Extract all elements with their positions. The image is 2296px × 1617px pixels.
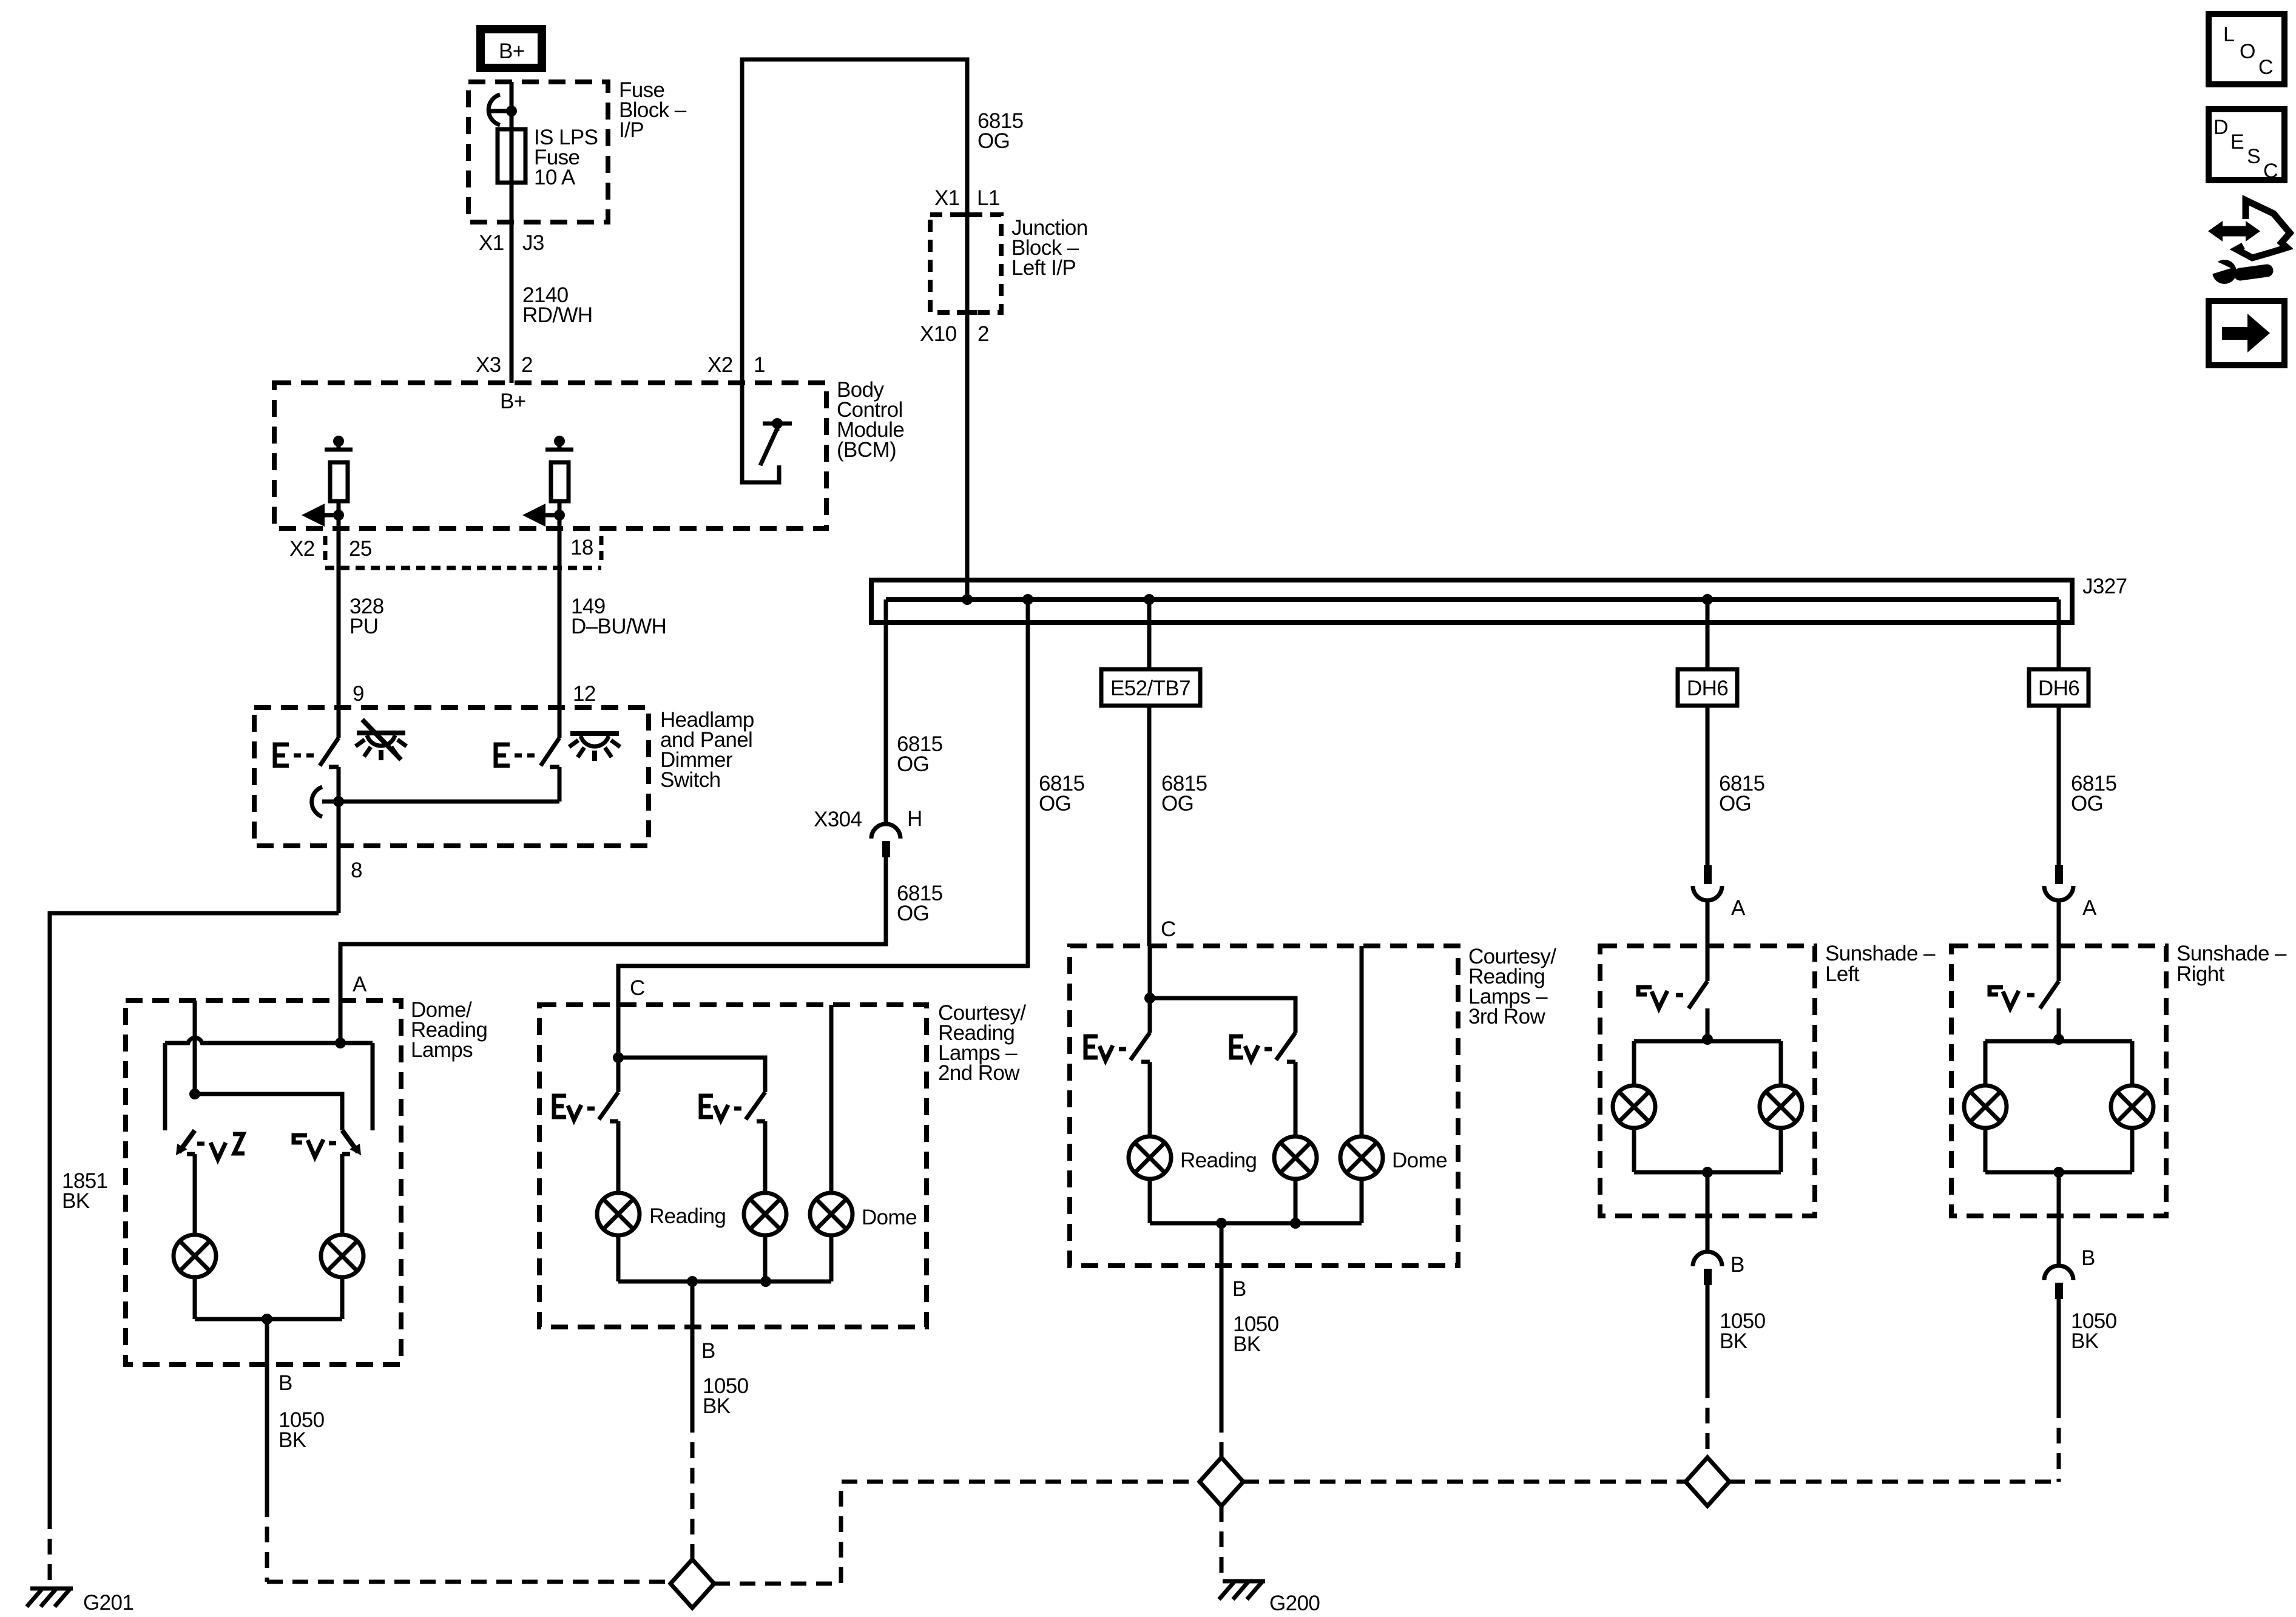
node fuse block tap junction (488, 95, 517, 125)
svg-text:DH6: DH6 (2038, 677, 2079, 700)
svg-text:BK: BK (62, 1189, 90, 1213)
wire A into lamp assembly (339, 1001, 343, 1043)
node B+ (battery feed box) (481, 29, 542, 68)
node splice S304 on bus (1702, 594, 1713, 605)
switch BCM internal driver (right side) (742, 383, 792, 482)
lamp reading left (3rd row) (1129, 1136, 1257, 1179)
svg-text:D–BU/WH: D–BU/WH (571, 615, 666, 638)
wire feed rail with hop (165, 1038, 373, 1043)
connector inline pin A (right sunshade) (2044, 865, 2097, 920)
svg-text:B: B (701, 1339, 715, 1363)
svg-text:1: 1 (754, 353, 765, 377)
lamp sunshade right A (1964, 1085, 2007, 1128)
legend button DESC (2209, 109, 2284, 183)
switch 2nd row right (746, 1092, 765, 1193)
svg-text:OG: OG (1719, 792, 1751, 815)
component box Headlamp and Panel Dimmer Switch (254, 707, 649, 846)
svg-text:B+: B+ (500, 390, 526, 413)
wire dome branch (829, 1005, 834, 1193)
svg-text:BK: BK (1233, 1332, 1261, 1356)
wire collector rail (193, 1277, 197, 1319)
wire pin 8 output (337, 802, 341, 913)
node splice S302 on bus (1022, 594, 1033, 605)
switch SW2 (panel lamp contact) (541, 707, 559, 802)
wire G200 drop (1220, 1506, 1224, 1578)
lamp reading right (3rd row) (1274, 1136, 1317, 1179)
splice S1 (diamond) (670, 1559, 714, 1608)
svg-text:Switch: Switch (660, 768, 721, 792)
svg-text:X1: X1 (934, 186, 960, 210)
switch dome left (reading) (176, 1130, 195, 1235)
wire dimmer output rail (322, 800, 559, 804)
splice S2 (diamond) (1200, 1457, 1243, 1506)
component box Junction Block - Left I/P (930, 215, 1001, 312)
svg-text:BK: BK (1720, 1329, 1747, 1353)
connector inline pin B (sunshade right) (2044, 1266, 2073, 1299)
wire pin B (sunshade left) (1706, 1172, 1710, 1252)
svg-text:B: B (1730, 1253, 1744, 1277)
svg-text:X1: X1 (479, 231, 504, 255)
svg-text:BK: BK (2071, 1329, 2099, 1353)
svg-text:BK: BK (279, 1428, 306, 1452)
wire collector (sunshade left) (1632, 1128, 1636, 1172)
wire pin B 1050 BK (2nd row) (690, 1281, 695, 1417)
wire pin B 1050 BK (265, 1319, 269, 1501)
wire 6815 OG from bus to X304 (884, 599, 888, 824)
svg-text:G200: G200 (1269, 1592, 1320, 1615)
connector X304 pin H (814, 807, 922, 857)
connector inline pin A (left sunshade) (1693, 865, 1746, 920)
fuse F1 IS LPS 10A (498, 129, 525, 183)
svg-text:X304: X304 (814, 808, 862, 831)
svg-text:BK: BK (703, 1394, 731, 1418)
ground G200 (1219, 1581, 1320, 1615)
wire BCM X2-1 up and over to junction block (742, 59, 967, 599)
svg-text:B: B (2081, 1246, 2095, 1270)
wire collector rail (3rd row) (1148, 1179, 1152, 1223)
icon Fv- (sunshade right) (1990, 987, 2034, 1008)
connector DH6 (right) (2029, 669, 2088, 706)
icon Ev- right (3rd row) (1231, 1036, 1272, 1061)
svg-text:Left: Left (1825, 962, 1860, 986)
svg-text:Left I/P: Left I/P (1011, 256, 1076, 280)
icon -vZ (door symbol) (197, 1134, 245, 1160)
svg-text:8: 8 (351, 859, 362, 882)
svg-text:X3: X3 (476, 353, 501, 377)
legend icon hand with wrench (2207, 200, 2290, 284)
wire 6815 OG from bus to 2nd row lamps (618, 599, 1028, 1005)
svg-text:J327: J327 (2082, 575, 2127, 598)
splice S3 (diamond) (1686, 1457, 1729, 1506)
node splice S303 on bus (1144, 594, 1155, 605)
svg-text:2: 2 (977, 322, 989, 346)
resistor R1 (BCM interior lamps driver left) (325, 436, 353, 501)
svg-text:A: A (2082, 896, 2097, 920)
svg-text:G201: G201 (83, 1591, 133, 1615)
svg-text:E: E (2230, 130, 2244, 154)
switch sunshade right (2040, 946, 2059, 1039)
node dimmer output tap hook (312, 787, 344, 817)
lamp sunshade left A (1613, 1085, 1655, 1128)
svg-text:DH6: DH6 (1687, 677, 1728, 700)
svg-text:Right: Right (2176, 962, 2225, 986)
component box Courtesy/Reading Lamps - 2nd Row (539, 1005, 927, 1327)
wire collector rail (2nd row) (616, 1235, 621, 1281)
lamp sunshade left B (1760, 1085, 1802, 1128)
wire 1851 BK run to G201 (50, 913, 339, 1513)
wire pin B (sunshade right) (2057, 1172, 2061, 1266)
legend button LOC (2209, 14, 2284, 84)
icon Ev- left (3rd row) (1086, 1036, 1126, 1061)
wire lamp rails (sunshade left) (1702, 1034, 1713, 1045)
lamp dome (2nd row) (810, 1193, 917, 1235)
wire ground run dome to splice (267, 1580, 670, 1584)
wire ground run sunshade right (1729, 1480, 2059, 1484)
switch 2nd row left (599, 1092, 618, 1193)
wire 1050 BK (sunshade left) (1706, 1285, 1710, 1382)
wire from R2 to pin 18 (558, 501, 562, 707)
svg-text:H: H (907, 807, 922, 831)
wire 6815 OG from bus through E52/TB7 to 3rd row lamps (1147, 599, 1152, 946)
wire 6815 OG from bus to sunshade left (1706, 599, 1710, 865)
lamp reading right (2nd row) (744, 1193, 786, 1235)
svg-text:OG: OG (2071, 792, 2103, 815)
svg-text:C: C (2263, 160, 2278, 183)
component box Sunshade - Left (1600, 946, 1815, 1216)
lamp dome left (174, 1235, 216, 1277)
component box Sunshade - Right (1951, 946, 2166, 1216)
wire from R1 to pin 25 (337, 501, 341, 707)
icon Ev- right (701, 1096, 741, 1120)
svg-text:A: A (1731, 896, 1746, 920)
svg-text:X2: X2 (707, 353, 733, 377)
wire B+ feed through fuse block down to BCM (510, 82, 514, 383)
actuator icon E right (496, 744, 535, 766)
wire lamp rails (sunshade right) (2053, 1034, 2064, 1045)
wire 1050 BK (sunshade right) (2057, 1299, 2061, 1402)
svg-text:E52/TB7: E52/TB7 (1110, 677, 1190, 700)
svg-text:10 A: 10 A (534, 166, 576, 189)
svg-text:Dome: Dome (1392, 1149, 1447, 1172)
lamp reading left (2nd row) (597, 1193, 726, 1235)
component box Courtesy/Reading Lamps - 3rd Row (1070, 946, 1458, 1266)
svg-text:C: C (630, 976, 645, 1000)
component box Fuse Block - I/P (468, 82, 608, 222)
svg-text:3rd Row: 3rd Row (1468, 1005, 1545, 1028)
svg-text:9: 9 (353, 682, 364, 706)
svg-text:Reading: Reading (1180, 1149, 1257, 1172)
component box Dome/Reading Lamps (126, 1001, 401, 1365)
lamp sunshade right B (2111, 1085, 2153, 1128)
wire C feed (3rd row) (1148, 946, 1152, 1033)
node BCM output arrow left (302, 504, 344, 527)
bus bar internal (886, 597, 2059, 602)
connector inline pin B (sunshade left) (1693, 1252, 1722, 1285)
wire 6815 OG from bus to sunshade right (2057, 599, 2061, 865)
switch sunshade left (1689, 946, 1707, 1039)
connector DH6 (left) (1678, 669, 1737, 706)
lamp dome (3rd row) (1340, 1136, 1447, 1179)
wire ground run to 2nd splice (714, 1482, 1200, 1584)
node splice S301 on bus (962, 594, 973, 605)
svg-text:X2: X2 (289, 537, 315, 561)
icon Ev- left (554, 1096, 595, 1120)
connector E52/TB7 (1101, 669, 1200, 706)
actuator icon E left (275, 744, 314, 766)
svg-text:Reading: Reading (649, 1204, 726, 1228)
svg-text:J3: J3 (522, 231, 544, 255)
wire pin B 1050 BK (3rd row) (1220, 1223, 1224, 1417)
svg-text:O: O (2240, 40, 2255, 63)
svg-text:OG: OG (1039, 792, 1071, 815)
connector X2 bracket (325, 536, 601, 568)
svg-text:B: B (279, 1371, 292, 1395)
switch dome right (door) (342, 1130, 361, 1235)
svg-text:25: 25 (349, 537, 372, 561)
svg-text:C: C (1161, 917, 1176, 941)
svg-text:18: 18 (570, 536, 593, 559)
wire branches (163, 1043, 167, 1130)
svg-text:I/P: I/P (619, 118, 644, 142)
wire ground run to 3rd splice (1243, 1480, 1686, 1484)
icon panel lamp (sun) (569, 734, 620, 761)
svg-text:C: C (2258, 56, 2274, 79)
svg-text:2nd Row: 2nd Row (938, 1061, 1020, 1085)
svg-text:OG: OG (1161, 792, 1194, 815)
svg-text:12: 12 (573, 682, 596, 706)
component box Body Control Module (BCM) (274, 383, 826, 528)
svg-text:(BCM): (BCM) (837, 438, 896, 462)
svg-text:PU: PU (349, 615, 378, 638)
svg-text:A: A (353, 973, 367, 996)
svg-text:OG: OG (977, 129, 1010, 153)
wire 6815 OG from X304 to dome lamps (340, 857, 886, 1001)
svg-text:RD/WH: RD/WH (522, 303, 593, 327)
icon Fv- (sunshade left) (1638, 987, 1683, 1008)
svg-text:X10: X10 (920, 322, 957, 346)
switch SW1 (panel dim contact) (320, 707, 339, 802)
wire center tap from housing (193, 1001, 197, 1094)
splice pack J327 outer frame (871, 580, 2072, 623)
svg-text:S: S (2247, 145, 2261, 168)
wire dome branch (3rd row) (1360, 946, 1364, 1136)
switch 3rd row left (1130, 1033, 1150, 1136)
icon Fv- (override symbol) (294, 1135, 336, 1157)
svg-text:D: D (2213, 116, 2229, 139)
svg-text:OG: OG (897, 902, 929, 925)
legend button arrow (2209, 301, 2284, 365)
svg-text:B+: B+ (499, 39, 525, 63)
icon panel dim (sun with strike) (356, 720, 407, 760)
switch 3rd row right (1276, 1033, 1295, 1136)
svg-text:Lamps: Lamps (411, 1038, 473, 1062)
node BCM output arrow right (522, 504, 565, 527)
svg-text:Dome: Dome (862, 1206, 917, 1229)
wire collector (sunshade right) (1984, 1128, 1988, 1172)
svg-text:B: B (1232, 1277, 1246, 1301)
svg-text:L1: L1 (977, 186, 1000, 210)
svg-text:L: L (2223, 23, 2235, 46)
resistor R2 (BCM interior lamps driver right) (545, 436, 573, 501)
svg-text:OG: OG (897, 752, 929, 776)
svg-text:2: 2 (521, 353, 533, 377)
ground G201 (27, 1588, 133, 1615)
wire C feed (616, 1005, 621, 1092)
lamp dome right (321, 1235, 363, 1277)
